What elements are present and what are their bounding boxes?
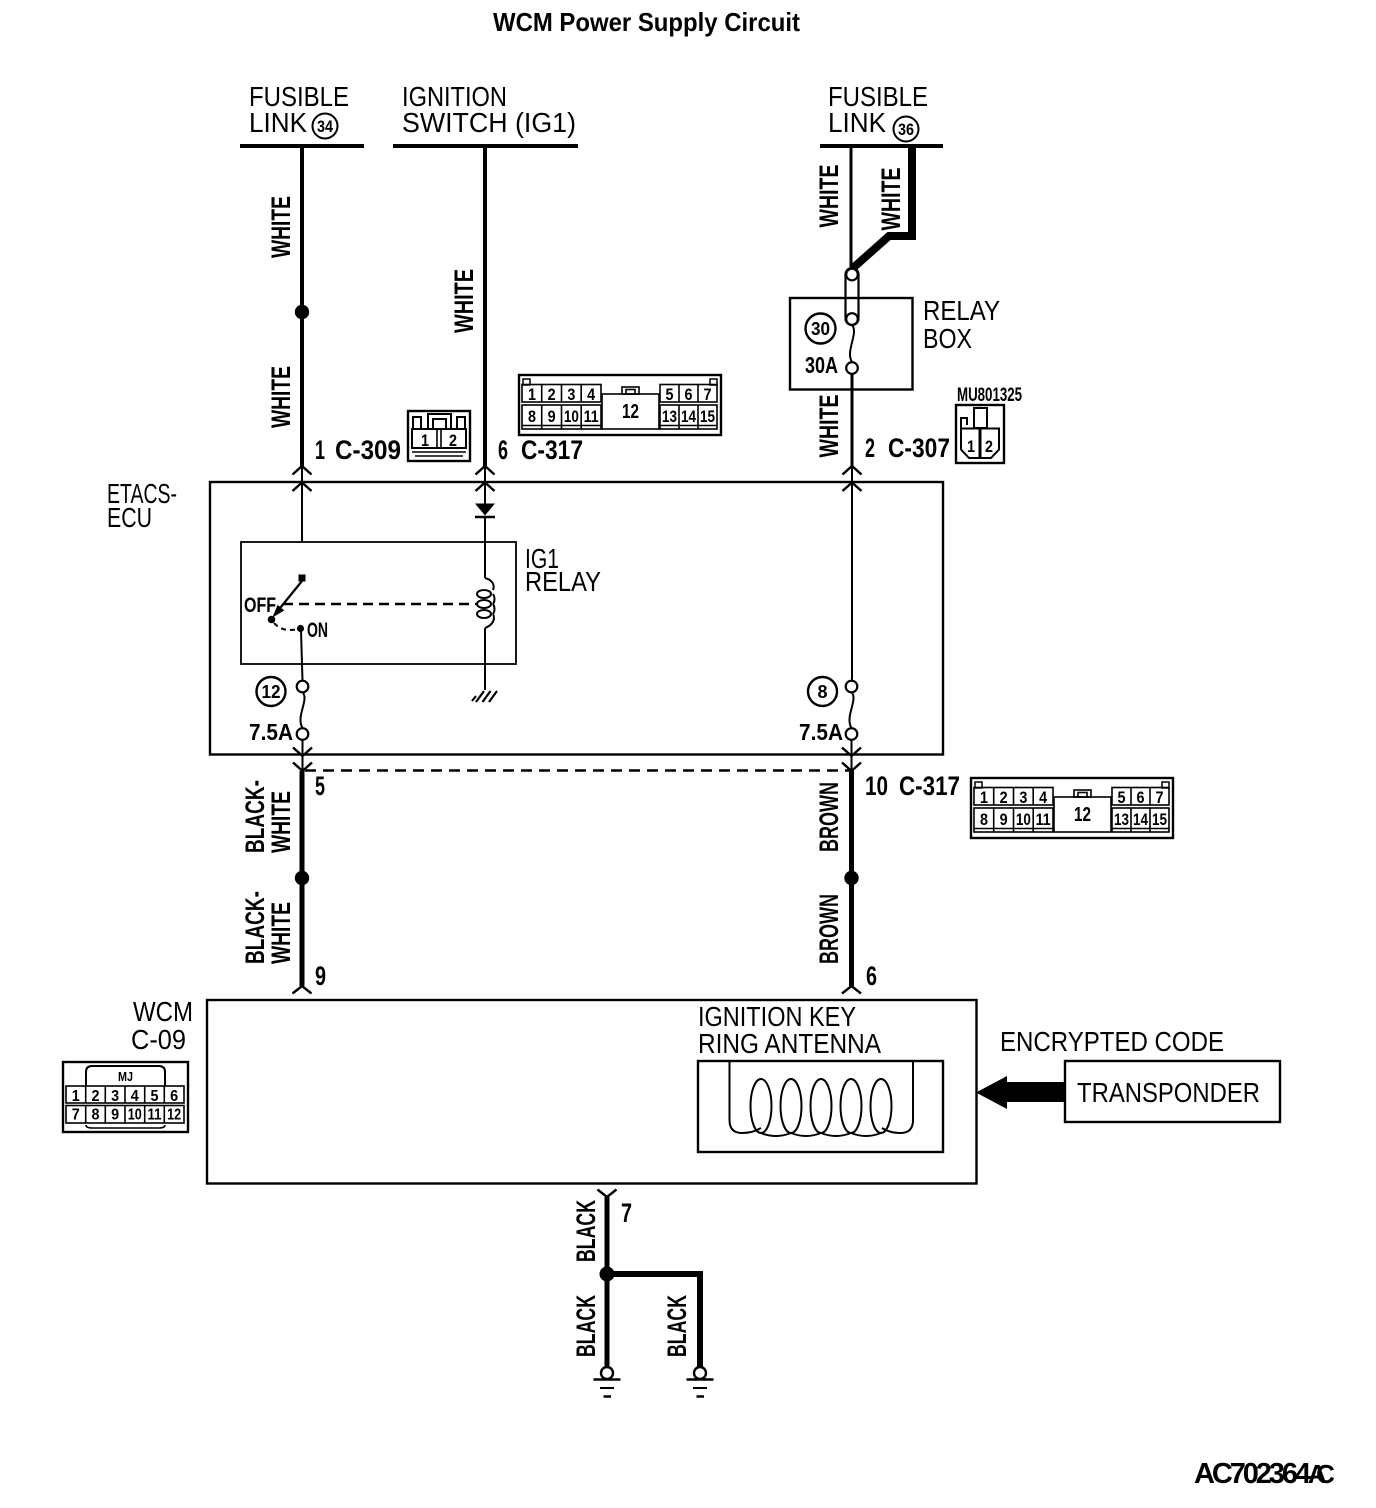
connector chevrons at ETACS pin 6 — [476, 466, 495, 504]
svg-text:1: 1 — [315, 435, 325, 465]
svg-text:36: 36 — [898, 120, 914, 139]
svg-text:6: 6 — [498, 435, 508, 465]
label IGNITION KEY RING ANTENNA — [698, 1001, 881, 1059]
circled number 12 (fuse) — [257, 677, 286, 706]
svg-text:7.5A: 7.5A — [249, 719, 293, 745]
circled number 34 — [313, 114, 338, 139]
wire fuse 12 to pin 5 — [302, 740, 304, 771]
svg-text:12: 12 — [262, 682, 281, 702]
connector icon C-309 — [408, 411, 470, 461]
connector icon C-317 (bottom) — [971, 778, 1173, 838]
junction dot on wire W6 — [844, 871, 858, 885]
svg-text:1: 1 — [967, 437, 975, 456]
svg-text:9: 9 — [111, 1107, 119, 1124]
svg-text:LINK: LINK — [828, 107, 886, 138]
svg-text:2: 2 — [985, 437, 993, 456]
IG1 relay inner box — [241, 542, 516, 664]
label FUSIBLE LINK 36 — [828, 81, 928, 138]
svg-text:C-307: C-307 — [888, 433, 950, 463]
circled number 30 — [806, 314, 836, 344]
svg-text:5: 5 — [151, 1088, 159, 1105]
svg-text:7: 7 — [621, 1198, 632, 1228]
svg-text:11: 11 — [148, 1107, 162, 1124]
svg-text:WHITE: WHITE — [266, 196, 296, 258]
svg-text:8: 8 — [92, 1107, 100, 1124]
wire W3b: fusible link 36 thick branch — [853, 148, 912, 268]
svg-text:ON: ON — [307, 619, 328, 642]
fuse 30A element — [846, 325, 858, 374]
connector chevrons at ETACS pin 10 exit — [842, 748, 861, 772]
svg-text:C-317: C-317 — [521, 435, 583, 465]
pin label 10 C-317 — [865, 771, 960, 801]
svg-text:4: 4 — [131, 1088, 139, 1105]
svg-text:12: 12 — [167, 1107, 181, 1124]
label IGNITION SWITCH (IG1) — [402, 81, 576, 138]
svg-text:RELAY: RELAY — [525, 566, 601, 597]
svg-text:1: 1 — [528, 385, 536, 404]
svg-text:BROWN: BROWN — [814, 782, 844, 852]
svg-text:OFF: OFF — [244, 594, 276, 617]
svg-text:WHITE: WHITE — [814, 395, 844, 458]
svg-text:TRANSPONDER: TRANSPONDER — [1077, 1077, 1260, 1108]
wire W5: ETACS pin 5 to WCM pin 9 — [300, 771, 305, 986]
svg-text:2: 2 — [865, 433, 875, 463]
connector icon C-09 — [63, 1062, 188, 1132]
svg-text:9: 9 — [548, 407, 556, 426]
dashed arc to ON position — [274, 623, 296, 630]
label WCM C-09 — [131, 996, 193, 1055]
ETACS-ECU box — [210, 482, 943, 755]
chassis ground (IG1 relay) — [472, 691, 497, 702]
connector chevrons at ETACS pin 2 — [843, 466, 862, 680]
svg-text:3: 3 — [111, 1088, 119, 1105]
svg-text:6: 6 — [866, 961, 877, 991]
relay switch — [268, 575, 306, 624]
svg-text:5: 5 — [315, 771, 325, 801]
svg-text:1: 1 — [72, 1088, 80, 1105]
svg-text:7: 7 — [72, 1107, 80, 1124]
chevron at WCM pin 9 — [293, 986, 312, 994]
antenna inner box — [698, 1061, 943, 1152]
wire label BLACK-WHITE (upper) — [240, 780, 296, 853]
connector chevrons at ETACS pin 5 exit — [293, 748, 312, 772]
ground (right) — [687, 1367, 714, 1397]
svg-text:MJ: MJ — [118, 1069, 133, 1084]
svg-text:15: 15 — [700, 407, 715, 426]
chevron at WCM pin 6 — [842, 986, 861, 994]
fusible link element (capsule) — [846, 268, 859, 325]
wire diode to coil — [484, 518, 486, 578]
wire W6: ETACS pin 10 to WCM pin 6 — [849, 771, 854, 986]
junction dot on wire W5 — [295, 871, 309, 885]
power bus bar (ignition switch) — [393, 144, 578, 148]
svg-text:14: 14 — [681, 407, 696, 426]
svg-text:BROWN: BROWN — [814, 894, 844, 964]
ON contact dot — [297, 625, 304, 632]
svg-text:34: 34 — [317, 117, 333, 136]
svg-text:ENCRYPTED CODE: ENCRYPTED CODE — [1000, 1026, 1224, 1057]
svg-text:BLACK: BLACK — [662, 1295, 692, 1357]
svg-text:2: 2 — [92, 1088, 100, 1105]
svg-text:WHITE: WHITE — [266, 791, 296, 853]
antenna coil — [730, 1061, 914, 1136]
svg-text:WCM Power Supply Circuit: WCM Power Supply Circuit — [493, 7, 800, 37]
svg-text:WCM: WCM — [133, 996, 193, 1027]
wire label BLACK-WHITE (lower) — [240, 891, 296, 964]
connector chevrons at ETACS pin 1 — [293, 466, 312, 542]
svg-text:5: 5 — [666, 385, 674, 404]
svg-text:3: 3 — [567, 385, 575, 404]
svg-text:C-09: C-09 — [131, 1024, 186, 1055]
svg-text:RING ANTENNA: RING ANTENNA — [698, 1028, 881, 1059]
encrypted code arrow — [976, 1076, 1065, 1109]
fuse 12 (7.5A) element — [297, 681, 309, 740]
RELAY BOX outline — [790, 298, 913, 390]
svg-text:ECU: ECU — [107, 502, 152, 533]
label FUSIBLE LINK 34 — [249, 81, 349, 138]
dashed connector line C-317 — [305, 769, 849, 771]
svg-text:1: 1 — [421, 431, 429, 450]
svg-text:8: 8 — [818, 682, 828, 702]
svg-text:10: 10 — [564, 407, 579, 426]
circled number 36 — [894, 117, 919, 142]
svg-text:10: 10 — [865, 771, 888, 801]
junction dot on wire W1 — [295, 305, 309, 319]
svg-text:7: 7 — [704, 385, 712, 404]
svg-text:C-309: C-309 — [335, 435, 401, 465]
TRANSPONDER box — [1065, 1061, 1280, 1122]
svg-text:WHITE: WHITE — [266, 902, 296, 964]
svg-text:30: 30 — [811, 319, 830, 339]
svg-text:11: 11 — [584, 407, 599, 426]
pin label 2 C-307 — [865, 433, 950, 463]
chevron at WCM pin 7 exit — [598, 1190, 617, 1198]
wire W7: WCM pin 7 to ground — [605, 1197, 610, 1366]
svg-text:6: 6 — [170, 1088, 178, 1105]
relay coil L1 — [477, 578, 495, 628]
svg-text:13: 13 — [662, 407, 677, 426]
WCM box — [207, 1000, 977, 1184]
svg-text:10: 10 — [128, 1107, 142, 1124]
pin label 1 C-309 — [315, 435, 401, 465]
diode D1 — [475, 504, 495, 518]
svg-text:6: 6 — [685, 385, 693, 404]
dashed link switch to coil — [283, 603, 476, 605]
svg-text:RELAY: RELAY — [923, 295, 1000, 326]
wire W1: fusible link 34 to ETACS pin 1 — [300, 148, 304, 466]
label ETACS-ECU — [107, 478, 177, 533]
fuse 8 (7.5A) element — [846, 681, 858, 740]
ground (left) — [594, 1367, 621, 1397]
pin label 6 C-317 — [498, 435, 583, 465]
svg-text:7.5A: 7.5A — [799, 719, 843, 745]
wire W2: ignition switch to ETACS pin 6 — [483, 148, 487, 466]
svg-text:SWITCH (IG1): SWITCH (IG1) — [402, 107, 576, 138]
svg-text:9: 9 — [315, 961, 326, 991]
wire W3a: fusible link 36 thin branch — [850, 148, 853, 267]
svg-text:AC702364AC: AC702364AC — [1194, 1458, 1335, 1490]
svg-text:BLACK: BLACK — [571, 1200, 601, 1262]
svg-text:2: 2 — [548, 385, 556, 404]
wire fuse 8 to pin 10 — [851, 740, 853, 771]
svg-text:MU801325: MU801325 — [957, 385, 1022, 406]
svg-text:30A: 30A — [805, 352, 838, 378]
svg-text:12: 12 — [622, 401, 639, 423]
connector icon C-317 (top) — [519, 375, 721, 435]
svg-text:LINK: LINK — [249, 107, 307, 138]
wire branch to right ground — [607, 1274, 700, 1367]
label IG1 RELAY — [525, 543, 601, 597]
svg-text:2: 2 — [449, 431, 457, 450]
junction dot on wire W7 — [600, 1267, 615, 1282]
wire W3c: relay box to ETACS pin 2 — [851, 374, 854, 466]
svg-text:WHITE: WHITE — [814, 165, 844, 228]
power bus bar (fusible link 34) — [240, 144, 364, 148]
svg-text:4: 4 — [587, 385, 595, 404]
svg-text:C-317: C-317 — [899, 771, 960, 801]
label RELAY BOX — [923, 295, 1000, 354]
svg-text:BLACK: BLACK — [571, 1295, 601, 1357]
power bus bar (fusible link 36) — [820, 144, 943, 148]
circled number 8 (fuse) — [808, 677, 837, 706]
svg-text:WHITE: WHITE — [876, 168, 906, 231]
svg-text:BOX: BOX — [923, 323, 972, 354]
wire coil to chassis ground — [484, 628, 486, 690]
connector icon MU801325 — [956, 405, 1004, 463]
wire switch to fuse 12 — [301, 630, 303, 681]
svg-text:WHITE: WHITE — [266, 366, 296, 428]
svg-text:WHITE: WHITE — [449, 269, 479, 333]
svg-text:8: 8 — [528, 407, 536, 426]
